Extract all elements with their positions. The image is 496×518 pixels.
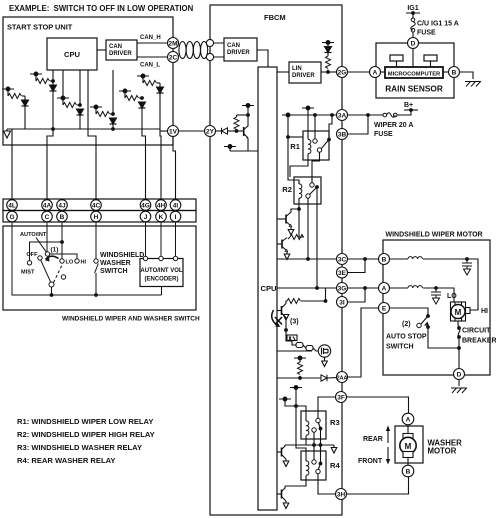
svg-text:FRONT: FRONT xyxy=(358,458,383,465)
connector C xyxy=(42,211,53,222)
svg-text:LO: LO xyxy=(66,260,74,266)
relay R1 coil xyxy=(308,139,311,153)
wiper/washer switch box xyxy=(3,226,196,310)
wiper switch pole xyxy=(49,282,54,287)
junction 3C line xyxy=(306,257,310,261)
svg-text:DRIVER: DRIVER xyxy=(109,51,132,57)
junction y445 a xyxy=(312,443,316,447)
wire D to microcomputer xyxy=(412,49,414,68)
contact (1) xyxy=(45,252,49,256)
wire 2AA to E xyxy=(348,308,379,377)
CAN open circle H xyxy=(206,39,213,46)
supply stub above 2AA line xyxy=(294,356,306,360)
transistor Q (3) xyxy=(278,304,287,318)
wire pads xyxy=(303,345,306,348)
R1 out to R2 contact1 xyxy=(312,152,320,183)
pad 1 xyxy=(296,343,303,348)
svg-text:LIN: LIN xyxy=(292,66,302,72)
relay R4 box xyxy=(301,451,326,480)
relay R2 box xyxy=(294,177,321,204)
field coil B xyxy=(408,257,422,259)
wire 3A to fuse xyxy=(348,114,384,116)
pullup cell 1 resistor xyxy=(35,74,37,81)
wire A to microcomputer xyxy=(381,71,386,73)
rail to R3 R4 coils xyxy=(296,388,306,462)
relay R1 common dot xyxy=(327,138,331,142)
open arrow below Q1 xyxy=(288,227,294,235)
svg-text:START STOP UNIT: START STOP UNIT xyxy=(7,23,73,32)
connector band row1 xyxy=(3,199,196,211)
pullup cell 4 resistor xyxy=(95,107,97,114)
svg-text:(3): (3) xyxy=(290,319,299,326)
svg-text:A: A xyxy=(406,417,411,424)
open arrow Q R3 xyxy=(283,459,289,467)
relay R1 contact fixed 1 xyxy=(313,139,317,143)
svg-text:4I: 4I xyxy=(173,203,179,210)
rotation arrow xyxy=(46,256,59,259)
connectors group xyxy=(168,38,465,500)
AUTO/INT leader line xyxy=(36,238,46,253)
wire fuse to B+ xyxy=(397,110,411,115)
pole dashed blade xyxy=(54,265,63,283)
wire 3E loop xyxy=(348,259,366,273)
wire 3I loop xyxy=(348,288,366,302)
y445 line xyxy=(285,444,334,446)
transistor Q R2 drive2 xyxy=(278,238,288,252)
CAN driver box (FBCM) xyxy=(224,38,257,61)
relay R2 blade xyxy=(310,187,318,195)
svg-text:B+: B+ xyxy=(404,102,413,109)
wire B column xyxy=(61,222,63,259)
wire motor bottom to breaker xyxy=(458,321,459,328)
junction LIN-2G xyxy=(326,70,330,74)
pullup cell 2 diode xyxy=(22,100,29,106)
ground rain sensor xyxy=(465,82,481,87)
svg-text:3B: 3B xyxy=(338,132,347,139)
wire coil A to LO xyxy=(423,288,454,302)
R1 coil bottom wire xyxy=(290,154,308,177)
svg-text:R3: WINDSHIELD WASHER RELAY: R3: WINDSHIELD WASHER RELAY xyxy=(17,443,142,452)
pullup cell 2 wire down to bus xyxy=(24,96,26,129)
rain sensor box xyxy=(376,43,454,98)
base resistor vertical xyxy=(236,115,238,117)
svg-text:M: M xyxy=(405,442,412,451)
svg-text:HI: HI xyxy=(481,308,488,315)
svg-text:WINDSHIELD WIPER MOTOR: WINDSHIELD WIPER MOTOR xyxy=(386,232,483,239)
svg-text:LO: LO xyxy=(447,293,457,300)
ground wiper motor xyxy=(451,388,467,393)
microcomputer box xyxy=(385,67,443,78)
junction (3) xyxy=(284,328,288,332)
wire 332 down to R1 common xyxy=(329,115,332,138)
svg-text:(1): (1) xyxy=(51,247,59,254)
R2 coil bottom down xyxy=(298,198,300,209)
pullup cell 4 diode xyxy=(110,118,117,124)
CPU pin wire col53 xyxy=(47,70,53,200)
capacitor to ground A xyxy=(431,288,441,304)
connector D wiper motor xyxy=(454,369,465,380)
auto stop junction bottom xyxy=(426,325,430,329)
junction rail R3 xyxy=(294,404,298,408)
washer switch wire to bus xyxy=(95,273,97,295)
wire pad to mosfet xyxy=(313,348,318,351)
connector 2AA xyxy=(337,372,348,383)
junction 3C line outside xyxy=(363,257,367,261)
connector 4J xyxy=(57,200,68,211)
svg-text:R2: R2 xyxy=(282,185,292,194)
resistor to 2AA line xyxy=(299,358,301,362)
pullup cell 1 junction xyxy=(51,79,55,83)
washer wire motor to B xyxy=(407,458,409,466)
junction cap B xyxy=(465,257,469,261)
rain sensor cell left xyxy=(390,55,403,61)
connector 1V xyxy=(168,126,179,137)
svg-text:MIST: MIST xyxy=(21,270,35,276)
svg-text:E: E xyxy=(382,306,387,313)
supply stub R3 area xyxy=(290,386,302,390)
svg-text:REAR: REAR xyxy=(363,436,383,443)
R4 coil bottom xyxy=(285,476,306,486)
relay R4 contact top xyxy=(312,460,316,464)
relay R4 contact bottom xyxy=(316,469,320,473)
svg-text:CAN_H: CAN_H xyxy=(140,35,161,41)
contact MIST xyxy=(27,261,31,265)
connector 3A xyxy=(337,110,348,121)
ground bus start stop unit xyxy=(7,128,160,130)
connector B washer motor xyxy=(402,465,414,477)
connector I xyxy=(170,211,181,222)
svg-text:4A: 4A xyxy=(43,203,52,210)
pullup cell 2 resistor xyxy=(7,89,9,96)
wire supply rail x288 xyxy=(288,115,299,184)
svg-text:3H: 3H xyxy=(337,492,346,499)
wire I to encoder xyxy=(175,222,177,256)
wire LIN driver to 2G xyxy=(321,71,337,73)
connector band row2 xyxy=(3,211,196,223)
wire 3H to washer B xyxy=(347,477,409,494)
connector 4A xyxy=(42,200,53,211)
svg-text:2C: 2C xyxy=(169,55,178,62)
transistor Q 2Y xyxy=(243,126,248,138)
svg-text:(ENCODER): (ENCODER) xyxy=(145,277,179,283)
svg-text:MICROCOMPUTER: MICROCOMPUTER xyxy=(388,72,441,78)
relay R3 box xyxy=(301,411,326,439)
connector H xyxy=(91,211,102,222)
svg-text:FUSE: FUSE xyxy=(374,131,393,138)
wire stub to collector xyxy=(247,106,249,127)
svg-text:WIPER 20 A: WIPER 20 A xyxy=(374,122,413,129)
connector 2C xyxy=(168,52,179,63)
auto stop blade xyxy=(421,316,428,324)
svg-text:2G: 2G xyxy=(338,70,347,77)
transistor Q R2 drive1 xyxy=(278,209,300,227)
relay R2 contact fixed2 xyxy=(306,194,310,198)
wire 3B loop xyxy=(348,115,369,134)
svg-text:B: B xyxy=(382,257,387,264)
CPU pin wire col63-80 xyxy=(63,70,80,129)
col160 wire xyxy=(160,83,161,200)
relay R4 blade xyxy=(318,464,320,470)
svg-text:A: A xyxy=(373,70,378,77)
svg-text:R1: R1 xyxy=(290,142,300,151)
connector 3H xyxy=(336,489,347,500)
washer switch blade xyxy=(95,264,99,274)
svg-text:D: D xyxy=(457,372,462,379)
rain sensor cell stems xyxy=(397,61,431,67)
diode on 2AA line xyxy=(321,375,327,381)
B+ node xyxy=(409,108,413,112)
stub on 3A line xyxy=(282,113,294,117)
svg-text:K: K xyxy=(159,214,164,221)
junction x325 xyxy=(324,299,328,303)
svg-text:3A: 3A xyxy=(338,113,347,120)
band connectors xyxy=(7,200,181,222)
svg-text:A: A xyxy=(382,286,387,293)
svg-text:WASHER: WASHER xyxy=(100,260,131,267)
supply stub above 2G xyxy=(322,41,334,45)
svg-text:SWITCH: SWITCH xyxy=(100,268,128,275)
R4 out to 3H xyxy=(318,474,336,494)
connector 3B xyxy=(337,129,348,140)
svg-text:I: I xyxy=(175,214,177,221)
wire rail to R1 coil top xyxy=(288,136,303,138)
svg-text:SWITCH: SWITCH xyxy=(386,344,414,351)
svg-text:FBCM: FBCM xyxy=(264,13,286,22)
wire CAN_L unit xyxy=(137,56,168,58)
connector 4G xyxy=(140,200,151,211)
pole wire to bus xyxy=(51,287,53,295)
relay R2 contact fixed1 xyxy=(310,183,314,187)
relay R4 common dot xyxy=(319,462,323,466)
junction washer bus xyxy=(94,293,98,297)
pullup cell 5 stub xyxy=(119,89,131,93)
svg-text:B: B xyxy=(60,214,65,221)
supply stub 2Y transistor xyxy=(242,104,254,108)
connector A washer motor xyxy=(402,413,414,425)
open arrow end y445 xyxy=(331,445,337,453)
col113 wire xyxy=(112,70,114,129)
svg-text:DRIVER: DRIVER xyxy=(292,73,315,79)
washer switch contact xyxy=(94,259,98,263)
wiper motor M xyxy=(451,302,471,321)
relay R3 common dot xyxy=(319,427,323,431)
junction pole bus xyxy=(50,293,54,297)
svg-text:B: B xyxy=(406,469,411,476)
FBCM box xyxy=(210,5,342,515)
encoder contact J xyxy=(143,256,147,260)
svg-text:C: C xyxy=(45,214,50,221)
wire stub to R1 coil xyxy=(307,108,309,139)
3A line inside FBCM xyxy=(288,114,337,116)
wire can circles to FBCM can driver xyxy=(214,43,224,57)
svg-text:3F: 3F xyxy=(337,395,345,402)
auto stop junction top xyxy=(426,314,430,318)
wire 3G dot down xyxy=(325,288,327,301)
front arrow xyxy=(387,447,389,460)
wire 1V down to 4I xyxy=(173,137,176,200)
connector 3I xyxy=(337,297,348,308)
(3) arrow mark xyxy=(272,310,278,326)
pullup cell 3 resistor xyxy=(62,98,64,105)
junction cap A xyxy=(434,286,438,290)
pullup cell 4 junction xyxy=(111,112,115,116)
wire rail to R3 coil xyxy=(296,406,306,421)
junction 332 xyxy=(330,113,334,117)
pullup cell 6 diode xyxy=(157,87,164,93)
svg-text:3C: 3C xyxy=(338,257,347,264)
encoder bus drop xyxy=(161,287,163,296)
CAN driver box (start stop unit) xyxy=(106,40,137,60)
contact LO xyxy=(60,259,64,263)
emitter (3) down xyxy=(285,318,287,331)
stub bar x285 xyxy=(279,397,291,401)
wire 3C to B xyxy=(348,258,379,260)
wire to MIST contact xyxy=(30,242,63,261)
svg-text:3E: 3E xyxy=(338,270,347,277)
wire resistor to rail xyxy=(299,209,304,237)
wire (3) resistor to junction xyxy=(301,300,326,302)
junction y445 b xyxy=(319,443,323,447)
twisted pair xyxy=(179,42,208,59)
svg-text:R3: R3 xyxy=(330,418,340,427)
wire D to ground xyxy=(458,380,460,387)
contact mid xyxy=(61,275,65,279)
wire R3 common down xyxy=(320,429,322,463)
connector 3G xyxy=(337,283,348,294)
wire block to pads xyxy=(286,336,296,345)
connector 2M xyxy=(168,38,179,49)
connector 4I xyxy=(170,200,181,211)
wire CPU to mosfet line xyxy=(278,350,313,352)
relay R3 blade xyxy=(318,423,320,429)
svg-text:4L: 4L xyxy=(8,203,16,210)
relay R1 box xyxy=(303,131,329,160)
resistor above 2G chain xyxy=(327,53,329,56)
svg-text:CAN: CAN xyxy=(109,44,122,50)
CPU tall box (FBCM) xyxy=(258,67,277,510)
junction collector rail xyxy=(246,113,250,117)
capacitor to ground B xyxy=(462,259,472,275)
pullup cell 3 stub xyxy=(57,96,69,100)
svg-text:BREAKER: BREAKER xyxy=(462,338,496,345)
contact HI xyxy=(75,259,79,263)
svg-text:CPU: CPU xyxy=(261,284,278,293)
junction R2-drive xyxy=(297,207,301,211)
connector A rain sensor xyxy=(370,67,381,78)
wire 1V into unit xyxy=(160,130,168,132)
relay R3 coil xyxy=(306,421,309,435)
relay R1 contact fixed 2 xyxy=(317,148,321,152)
svg-text:H: H xyxy=(94,214,99,221)
washer motor M xyxy=(400,434,416,458)
transistor Q R3 drive xyxy=(278,445,287,459)
relay R2 coil xyxy=(299,184,302,198)
stub at emitter line xyxy=(224,145,236,149)
LIN driver box xyxy=(289,62,321,83)
mosfet source down + open arrow ground xyxy=(322,357,328,366)
transistor Q R4 drive xyxy=(278,486,287,501)
pullup cell 6 resistor xyxy=(142,76,144,83)
encoder contact I xyxy=(173,256,177,260)
wire fuse to D xyxy=(412,32,414,37)
base resistor (3) xyxy=(286,301,287,304)
bus junction col113 xyxy=(111,127,115,131)
svg-text:G: G xyxy=(9,214,14,221)
R2 common to 3G line xyxy=(316,187,318,288)
connector J xyxy=(140,211,151,222)
rain sensor cell right xyxy=(424,55,437,61)
connector E wiper motor xyxy=(379,303,390,314)
svg-text:D: D xyxy=(411,41,416,48)
wiper motor box xyxy=(383,240,490,375)
CAN open circle L xyxy=(206,53,213,60)
pad 2 xyxy=(306,346,313,351)
contact OFF xyxy=(38,256,42,260)
junction B column xyxy=(60,240,64,244)
diode after 2Y xyxy=(216,130,222,132)
connector 2G xyxy=(337,67,348,78)
svg-text:FUSE: FUSE xyxy=(417,30,436,37)
wire resistor top to collector rail xyxy=(237,114,249,116)
svg-text:R1: WINDSHIELD WIPER LOW RELAY: R1: WINDSHIELD WIPER LOW RELAY xyxy=(17,417,153,426)
connector 4C xyxy=(91,200,102,211)
pullup cell 5 resistor xyxy=(124,91,126,98)
svg-text:2AA: 2AA xyxy=(337,375,348,381)
pullup cell 3 diode xyxy=(77,109,84,115)
relay R2 common dot xyxy=(315,185,319,189)
relay R1 blade xyxy=(321,140,329,149)
svg-text:4H: 4H xyxy=(157,203,166,210)
wire 3F to washer A xyxy=(347,397,409,413)
pullup cell 3 junction xyxy=(78,103,82,107)
wiper fuse 20A xyxy=(383,113,397,118)
pullup cell 1 diode xyxy=(50,85,57,91)
svg-text:1V: 1V xyxy=(169,129,178,136)
svg-text:R2: WINDSHIELD WIPER HIGH RELA: R2: WINDSHIELD WIPER HIGH RELAY xyxy=(17,430,155,439)
svg-text:3I: 3I xyxy=(339,300,345,307)
auto stop blade arrow xyxy=(424,322,429,326)
wire 3G to A xyxy=(348,287,379,289)
svg-text:HI: HI xyxy=(81,260,87,266)
wire K to encoder xyxy=(160,222,162,256)
wire (1) to HI xyxy=(50,254,77,259)
svg-text:R4: REAR WASHER RELAY: R4: REAR WASHER RELAY xyxy=(17,456,115,465)
open arrow Q R4 xyxy=(283,501,289,509)
CPU box (start stop unit) xyxy=(47,38,97,70)
wire 2G to A xyxy=(348,71,370,73)
wire breaker to D xyxy=(458,337,460,369)
fuse C/U IG1 15A xyxy=(411,18,416,32)
AUTO/INT VOL encoder box xyxy=(140,259,183,287)
svg-text:C/U IG1 15 A: C/U IG1 15 A xyxy=(417,21,459,28)
junction 3G line outside xyxy=(363,286,367,290)
svg-text:3G: 3G xyxy=(338,286,347,293)
connector 3C xyxy=(337,254,348,265)
connector 4L xyxy=(7,200,18,211)
diode above 2G chain xyxy=(327,43,329,47)
wire 3F to R3 contact xyxy=(318,397,336,418)
wire resistor to junction xyxy=(327,70,329,73)
relay R4 coil xyxy=(306,461,309,475)
junction base resistor xyxy=(235,129,239,133)
wire C column to contact (1) xyxy=(46,222,48,252)
connector G xyxy=(7,211,18,222)
svg-text:MOTOR: MOTOR xyxy=(428,447,457,456)
2AA line xyxy=(278,377,337,379)
wire microcomputer to B xyxy=(443,71,449,73)
pullup cell 4 stub xyxy=(90,105,102,109)
svg-text:EXAMPLE: SWITCH TO OFF IN LOW: EXAMPLE: SWITCH TO OFF IN LOW OPERATION xyxy=(9,4,194,13)
